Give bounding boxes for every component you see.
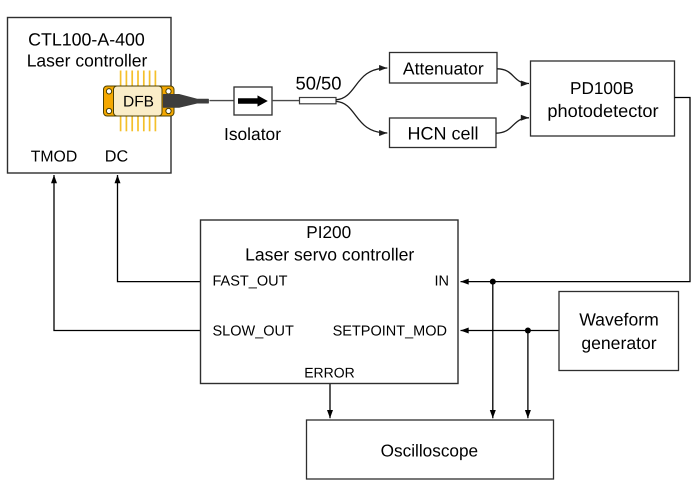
svg-text:Laser servo controller: Laser servo controller [245,245,414,265]
svg-text:50/50: 50/50 [295,73,341,94]
junction dot SETPOINT tap [525,328,531,334]
svg-text:PD100B: PD100B [570,78,634,98]
fiber wire laser to isolator [210,100,235,102]
fiber wire HCN cell to photodetector [496,118,529,133]
waveform generator box [559,292,679,371]
screw hole bottom-left [106,108,111,113]
fiber coupler 50/50 [300,98,337,104]
wire photodetector output to servo IN [461,98,691,282]
wire SLOW_OUT to TMOD [54,175,201,331]
fiber pigtail boot [164,95,209,108]
laser controller box CTL100-A-400 [8,18,172,174]
screw hole top-left [106,89,111,94]
svg-text:TMOD: TMOD [31,149,78,166]
svg-text:SETPOINT_MOD: SETPOINT_MOD [333,324,447,340]
svg-text:DC: DC [105,148,129,166]
wire SETPOINT tap to oscilloscope [527,331,529,419]
svg-text:Waveform: Waveform [579,310,659,330]
pins bottom [121,116,156,131]
svg-text:HCN cell: HCN cell [407,124,478,144]
junction dot IN tap [490,279,496,285]
isolator arrow symbol [238,95,268,106]
svg-text:Laser controller: Laser controller [27,51,148,71]
wire FAST_OUT to DC [118,175,201,282]
fiber wire coupler to attenuator [336,68,387,100]
svg-text:Attenuator: Attenuator [403,59,484,79]
attenuator box [390,53,498,84]
oscilloscope box [307,420,554,479]
DFB laser butterfly package [104,71,209,132]
wire IN tap to oscilloscope [492,282,494,419]
svg-text:SLOW_OUT: SLOW_OUT [213,324,295,340]
screw hole bottom-right [166,108,171,113]
HCN cell box [390,118,497,148]
svg-text:FAST_OUT: FAST_OUT [213,274,288,290]
wire ERROR to oscilloscope [329,384,331,419]
package body [104,86,175,116]
svg-text:Isolator: Isolator [224,124,281,144]
fiber wire attenuator to photodetector [497,69,529,84]
svg-text:ERROR: ERROR [304,364,355,380]
pins top [121,71,156,87]
svg-text:generator: generator [581,333,656,353]
package inner face [114,86,163,116]
isolator box [234,87,272,115]
svg-text:IN: IN [435,274,450,290]
svg-text:CTL100-A-400: CTL100-A-400 [28,30,145,50]
fiber wire isolator to 50/50 coupler [272,100,300,102]
svg-text:Oscilloscope: Oscilloscope [381,441,478,461]
svg-text:DFB: DFB [123,94,154,111]
fiber wire coupler to HCN cell [336,101,387,133]
screw hole top-right [166,89,171,94]
svg-text:PI200: PI200 [306,222,351,242]
photodetector box PD100B [531,61,675,136]
wire waveform generator to SETPOINT_MOD [461,330,560,332]
laser servo controller box PI200 [201,220,459,384]
svg-text:photodetector: photodetector [547,101,658,121]
